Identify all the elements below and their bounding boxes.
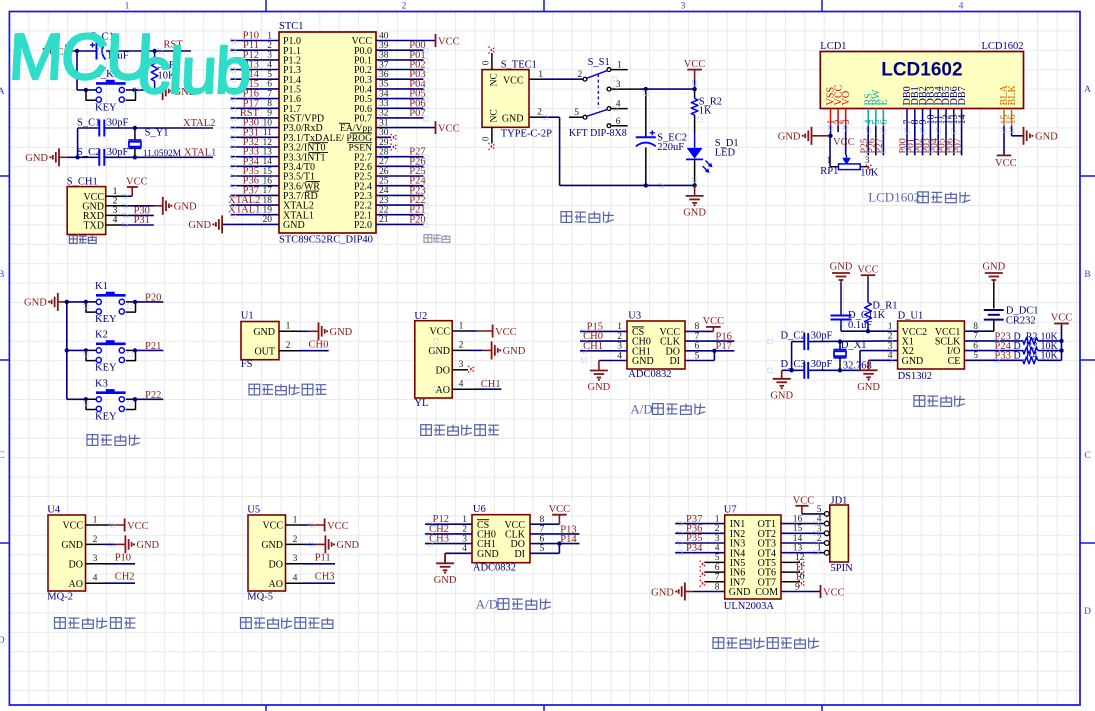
capacitor D_C1 0.1uF — [831, 283, 874, 331]
svg-text:DO: DO — [269, 559, 283, 570]
svg-text:GND: GND — [502, 114, 524, 125]
svg-text:2: 2 — [817, 534, 822, 544]
svg-text:2: 2 — [459, 341, 464, 351]
svg-text:1: 1 — [715, 514, 720, 524]
connector JD1 pin 3 — [824, 531, 829, 536]
wire X2 bottom row — [782, 369, 805, 371]
power port GND (U4) — [116, 535, 159, 553]
no-erc mark mcu pin30 — [391, 134, 398, 141]
junction (85.9,90) — [84, 88, 88, 92]
title 四相五线步进电机 — [713, 638, 819, 649]
capacitor S_EC2 220uF — [636, 89, 687, 185]
pin 1 U1 — [279, 330, 299, 332]
svg-text:16: 16 — [793, 514, 803, 524]
capacitor E_C1 10uF — [90, 32, 129, 62]
net label VCC (lcd pin2) — [833, 126, 855, 148]
svg-text:6: 6 — [616, 117, 621, 127]
driver U7 ULN2003A body — [724, 505, 781, 612]
mcu pin 4 P1.3 — [231, 60, 302, 76]
capacitor S_C1 30pF — [77, 118, 128, 137]
svg-text:GND: GND — [24, 298, 47, 309]
mcu pin 10 P3.0/RxD — [231, 118, 323, 134]
pin 4 U4 — [86, 582, 104, 584]
svg-text:2: 2 — [537, 108, 542, 118]
switch S_S1 KFT DIP-8X8 — [569, 57, 639, 139]
svg-text:FS: FS — [241, 359, 253, 370]
junction (868,rtc pin1) — [866, 329, 870, 333]
driver U7 pin 16 OT1 — [781, 523, 827, 525]
svg-text:GND: GND — [1035, 132, 1058, 143]
resistor D_R1 1K — [865, 278, 898, 332]
svg-text:LCD1602: LCD1602 — [982, 41, 1024, 52]
mcu pin 5 P1.4 — [231, 70, 302, 86]
mcu U STC1 body — [279, 21, 376, 233]
wire S_CH1 pin2 GND — [123, 205, 153, 207]
svg-text:LCD1602: LCD1602 — [868, 190, 920, 205]
adc U3 pin 2 — [580, 340, 627, 342]
no-erc mark U7 pin 12 — [799, 561, 806, 568]
mcu pin 3 P1.2 — [231, 51, 302, 67]
power port VCC (reset) — [42, 45, 76, 58]
svg-text:1: 1 — [113, 187, 118, 197]
pin 4 U2 — [452, 388, 474, 390]
svg-text:3: 3 — [616, 80, 621, 90]
svg-text:GND: GND — [428, 346, 450, 357]
svg-text:10: 10 — [795, 573, 805, 583]
key K2 — [86, 329, 136, 373]
mcu pin 35 P0.4 — [354, 80, 423, 96]
pin 1 S_CH1 — [106, 195, 124, 197]
wire U2 pin2 — [470, 349, 483, 351]
svg-text:D_C2: D_C2 — [781, 330, 806, 341]
zone letters left — [0, 87, 5, 646]
svg-text:VCC: VCC — [833, 137, 855, 148]
svg-text:KEY: KEY — [95, 314, 117, 325]
driver U7 pin 12 stub — [781, 561, 800, 563]
svg-text:VCC: VCC — [495, 327, 517, 338]
label 单片机 — [424, 235, 450, 243]
svg-text:P2.0: P2.0 — [354, 220, 372, 231]
svg-text:KEY: KEY — [95, 102, 117, 113]
mcu pin 11 P3.1/TxD — [231, 128, 323, 144]
adc U3 pin 7 P16 — [685, 340, 734, 342]
key S_K1 — [86, 69, 136, 113]
svg-text:DI: DI — [669, 356, 680, 367]
pin 4 U5 — [286, 582, 304, 584]
connector JD1 pin 5 — [824, 512, 829, 517]
svg-text:3: 3 — [841, 120, 852, 125]
title LCD1602显示模块 — [868, 190, 970, 205]
svg-text:6: 6 — [715, 563, 720, 573]
svg-text:2: 2 — [402, 2, 407, 12]
junction (134.5,90) — [132, 88, 136, 92]
no-erc mark U7 pin 6 — [700, 570, 707, 577]
svg-text:P20: P20 — [145, 292, 161, 303]
wire U4 pin2 — [103, 543, 116, 545]
svg-text:3: 3 — [715, 534, 720, 544]
mcu pin 26 P2.5 — [354, 167, 423, 183]
connector JD1 pin 1 — [824, 550, 829, 555]
svg-text:VCC: VCC — [503, 76, 524, 87]
svg-text:VCC: VCC — [823, 587, 845, 598]
svg-text:A/D: A/D — [630, 402, 652, 417]
wire JD1 pin5 — [802, 513, 824, 515]
svg-text:GND: GND — [283, 220, 305, 231]
svg-text:3: 3 — [459, 360, 464, 370]
wire key bus vertical — [66, 302, 68, 399]
power port GND (U3) — [588, 361, 611, 394]
title 时钟模块 — [914, 396, 965, 407]
wire U1 pin1 gnd — [299, 330, 309, 332]
lcd pin 16 BLK — [1007, 84, 1018, 126]
svg-text:4: 4 — [113, 216, 118, 226]
svg-text:P22: P22 — [145, 390, 161, 401]
power port VCC (D_R1) — [857, 264, 879, 277]
svg-text:8: 8 — [540, 515, 545, 525]
svg-text:0.1uF: 0.1uF — [848, 320, 872, 331]
mcu pin 2 P1.1 — [231, 41, 302, 57]
adc U3 pin 8 vcc — [685, 330, 713, 332]
wire rtc pin4 gnd — [869, 359, 898, 361]
wire bus to K1 — [67, 301, 86, 303]
lcd pin 6 E — [879, 99, 890, 126]
power port GND (rtc pin4) — [857, 360, 880, 393]
title 风速检测模块 — [249, 384, 326, 395]
power port GND (U2) — [483, 341, 526, 359]
connector S_TEC1 TYPE-C-2P — [482, 60, 552, 140]
svg-text:13: 13 — [793, 544, 803, 554]
junction (1061.5,I/O) — [1059, 348, 1063, 352]
svg-text:D: D — [1084, 607, 1091, 617]
svg-text:B: B — [1084, 270, 1090, 280]
driver U7 pin 4 — [675, 552, 725, 554]
pin 4 S_CH1 — [106, 224, 124, 226]
svg-text:VCC: VCC — [429, 327, 450, 338]
svg-text:30pF: 30pF — [811, 330, 833, 341]
svg-text:DO: DO — [69, 559, 83, 570]
svg-text:2: 2 — [286, 341, 291, 351]
pin 1 S_TEC1 — [529, 78, 540, 80]
driver U7 pin 6 stub — [705, 571, 725, 573]
junction (830.5,135.8) — [828, 134, 832, 138]
power port GND (U1) — [309, 322, 353, 340]
svg-text:P07: P07 — [952, 138, 963, 153]
wire D_C2 left leg — [792, 341, 805, 343]
svg-text:GND: GND — [683, 207, 706, 218]
wire key left stub — [77, 89, 86, 91]
pin 2 U2 — [452, 349, 470, 351]
rtc D_U1 body — [898, 311, 965, 383]
mcu pin 21 P2.0 — [354, 215, 423, 231]
svg-text:P11: P11 — [315, 552, 331, 563]
svg-text:VO: VO — [841, 91, 852, 106]
wire crystal left leg — [77, 128, 79, 157]
svg-text:1: 1 — [293, 515, 298, 525]
adc U3 pin 3 — [580, 350, 627, 352]
wire S_CH1 pin1 VCC — [123, 195, 132, 197]
pin 3 S_CH1 — [106, 214, 124, 216]
driver U7 pin 2 — [675, 532, 725, 534]
resistor D_R2 10K — [1014, 331, 1059, 344]
power port GND (D_C1) — [830, 262, 853, 284]
wire key right stub — [136, 89, 145, 91]
svg-text:14: 14 — [957, 115, 968, 125]
driver U7 pin 1 — [675, 523, 725, 525]
mcu pin 37 P0.2 — [354, 60, 423, 76]
svg-text:U5: U5 — [247, 504, 260, 515]
power port GND (mcu pin20) — [188, 215, 222, 233]
svg-text:16: 16 — [1007, 115, 1018, 125]
svg-text:GND: GND — [25, 153, 48, 164]
wire rtc pin1 row — [841, 330, 898, 332]
pin 2 U5 — [286, 543, 304, 545]
mcu pin 23 P2.2 — [354, 196, 423, 212]
pin 2 S_TEC1 — [529, 116, 540, 118]
svg-text:GND: GND — [729, 587, 751, 598]
svg-text:5: 5 — [574, 108, 579, 118]
junction (154.6,51) — [152, 49, 156, 53]
svg-text:3: 3 — [113, 206, 118, 216]
mcu pin 13 P3.3/INT1 — [231, 148, 326, 164]
driver U7 pin 13 OT4 — [781, 552, 827, 554]
svg-text:DO: DO — [436, 365, 450, 376]
wire XTAL2 row — [78, 127, 100, 129]
mcu pin 25 P2.4 — [354, 177, 423, 193]
svg-text:GND: GND — [982, 262, 1005, 273]
svg-text:220uF: 220uF — [657, 142, 684, 153]
adc U6 pin 2 — [425, 533, 472, 535]
svg-text:K1: K1 — [95, 281, 108, 292]
power port GND (lcd right) — [1024, 127, 1059, 145]
wire lcd pin15 bla-vcc — [1003, 126, 1005, 155]
svg-text:U3: U3 — [628, 311, 641, 322]
driver U7 pin 7 stub — [705, 581, 725, 583]
svg-text:VCC: VCC — [127, 521, 149, 532]
junction (840,X1 row) — [838, 339, 842, 343]
svg-text:3: 3 — [865, 156, 870, 166]
rtc pin numbers right — [973, 322, 978, 361]
svg-text:D: D — [0, 636, 5, 646]
potentiometer RP1 10K — [820, 156, 878, 178]
svg-text:5: 5 — [715, 553, 720, 563]
svg-text:CH1: CH1 — [481, 379, 501, 390]
svg-text:D_R4: D_R4 — [1014, 351, 1038, 362]
wire VCC-RST row — [76, 50, 96, 52]
junction (66.8,301.9) — [65, 300, 69, 304]
lcd pin 12 DB5 — [941, 86, 952, 126]
wire lcd pin16 blk-gnd — [1011, 126, 1013, 136]
svg-text:2: 2 — [462, 525, 467, 535]
lcd pin 2 VCC — [833, 84, 844, 126]
svg-text:1K: 1K — [699, 106, 712, 117]
adc U3 body — [627, 311, 685, 381]
svg-text:DB7: DB7 — [957, 86, 968, 105]
svg-text:3: 3 — [617, 342, 622, 352]
wire K1 to label — [136, 301, 164, 303]
wire S_R1 to gnd elbow — [154, 81, 156, 91]
wire pullup bus vertical — [1061, 325, 1063, 360]
svg-text:3: 3 — [462, 534, 467, 544]
power port VCC (U2) — [477, 325, 517, 338]
junction (1061.5,SCLK) — [1059, 339, 1063, 343]
svg-text:12: 12 — [795, 553, 805, 563]
lcd pin 3 VO — [841, 91, 852, 126]
wire rtc pin2 X1 — [808, 340, 897, 343]
svg-text:3: 3 — [681, 2, 686, 12]
power port VCC (U5) — [309, 519, 349, 532]
svg-text:XTAL1: XTAL1 — [184, 147, 216, 158]
capacitor D_C3 30pF — [781, 359, 833, 379]
svg-text:4: 4 — [93, 574, 98, 584]
mcu pin 24 P2.3 — [354, 186, 423, 202]
junction (134.9,128) — [133, 126, 137, 130]
svg-text:GND: GND — [174, 202, 197, 213]
svg-text:VCC: VCC — [857, 264, 879, 275]
svg-text:11: 11 — [795, 563, 804, 573]
power port VCC (power circuit) — [684, 59, 706, 80]
svg-text:OUT: OUT — [254, 346, 275, 357]
no-erc mark U2 pin3 — [468, 366, 475, 373]
junction (645.8,185.4) — [644, 183, 648, 187]
wire left leg to key — [76, 51, 78, 90]
svg-text:P21: P21 — [145, 341, 161, 352]
no-erc mark U7 pin 5 — [700, 561, 707, 568]
wire bus to K3 — [67, 398, 86, 400]
title 烟雾检测模块 — [55, 618, 136, 629]
svg-text:D_X1: D_X1 — [841, 340, 867, 351]
no-erc mark U7 pin 11 — [799, 570, 806, 577]
svg-text:ADC0832: ADC0832 — [473, 562, 516, 573]
svg-text:3: 3 — [93, 554, 98, 564]
title 雨水检测模块 — [421, 425, 499, 436]
power port GND (U5) — [316, 535, 359, 553]
svg-text:K3: K3 — [95, 378, 108, 389]
svg-text:U4: U4 — [47, 504, 61, 515]
power port GND (D_C3) — [770, 370, 793, 401]
svg-text:VCC: VCC — [62, 521, 83, 532]
svg-text:C: C — [1084, 451, 1090, 461]
wire rtc pin5 CE row — [964, 359, 1022, 361]
driver U7 pin 11 stub — [781, 571, 800, 573]
title A/D转换电路 (U3) — [630, 402, 705, 417]
lcd pin 4 RS — [863, 93, 874, 126]
svg-text:8: 8 — [715, 582, 720, 592]
svg-text:VCC: VCC — [549, 504, 571, 515]
wire U2 pin4 CH1 — [474, 388, 502, 390]
pin stub S_TEC1 top — [491, 53, 493, 70]
power port GND (D_DC1) — [982, 262, 1005, 284]
lcd pin 14 DB7 — [957, 86, 968, 126]
svg-text:RP1: RP1 — [820, 166, 838, 177]
wire lcd pin3 vo to pot wiper — [845, 126, 847, 155]
power port GND (reset) — [155, 82, 197, 100]
power port VCC (U7 COM) — [821, 585, 845, 598]
svg-text:XTAL2: XTAL2 — [183, 118, 215, 129]
svg-text:4: 4 — [616, 100, 621, 110]
svg-text:P10: P10 — [115, 552, 131, 563]
lcd LCD1 body — [820, 41, 1023, 109]
svg-text:YL: YL — [414, 398, 428, 409]
svg-text:D_U1: D_U1 — [898, 311, 924, 322]
no-erc mark S_TEC1 bottom — [489, 143, 496, 150]
mcu pin 30 ALE/ PROG — [323, 128, 391, 144]
svg-text:5: 5 — [817, 505, 822, 515]
wire TEC1 pin1 to switch — [540, 78, 583, 80]
driver U7 pin 9 COM — [781, 591, 821, 593]
wire lcd pins4-14 with rotated labels — [859, 126, 963, 155]
svg-text:VCC: VCC — [703, 316, 725, 327]
mcu pin 33 P0.6 — [354, 99, 423, 115]
svg-text:CH3: CH3 — [315, 572, 335, 583]
svg-text:S_C1: S_C1 — [77, 118, 100, 129]
svg-text:4: 4 — [459, 380, 464, 390]
mcu pin 34 P0.5 — [354, 89, 423, 105]
junction (559.4,U6 DO row) — [557, 541, 561, 545]
power port VCC (JD1 pin5) — [793, 496, 815, 514]
svg-text:4: 4 — [617, 351, 622, 361]
mcu pin 1 P1.0 — [231, 31, 302, 47]
pin 1 U5 — [286, 524, 304, 526]
svg-text:15: 15 — [793, 524, 803, 534]
mcu pin 32 P0.7 — [354, 109, 423, 125]
power port GND (U7) — [651, 583, 693, 601]
driver U7 pin 8 gnd — [693, 591, 725, 593]
svg-text:LCD1602: LCD1602 — [881, 60, 962, 81]
MCUclub logo — [6, 20, 252, 107]
wire lcd pin1 vss-gnd — [830, 126, 832, 136]
svg-text:P14: P14 — [560, 534, 577, 545]
svg-text:KFT DIP-8X8: KFT DIP-8X8 — [569, 128, 627, 139]
label 下载口 — [69, 236, 96, 244]
junction right K3 — [133, 397, 137, 401]
title 电源电路 — [561, 212, 614, 223]
mcu pin 28 P2.7 — [354, 148, 423, 164]
wire rtc pin7 SCLK row — [964, 340, 1022, 342]
svg-text:1: 1 — [459, 321, 464, 331]
junction (840,370.3) — [838, 368, 842, 372]
junction (77,51) — [75, 49, 79, 53]
lcd pin 15 BLA — [999, 84, 1010, 126]
mcu pin 27 P2.6 — [354, 157, 423, 173]
svg-text:MQ-2: MQ-2 — [47, 592, 73, 603]
power port VCC (S_CH1) — [126, 176, 148, 196]
svg-text:VCC: VCC — [684, 59, 706, 70]
wire rtc pin3 X2 — [860, 350, 898, 352]
mcu pin 40 VCC — [351, 31, 435, 47]
svg-text:KEY: KEY — [95, 412, 117, 423]
selection marks — [84, 39, 1014, 555]
adc U6 pin 3 — [425, 543, 472, 545]
adc U3 pin 6 P17 — [685, 350, 734, 352]
svg-text:VCC: VCC — [995, 158, 1017, 169]
wire TEC1 pin2 gnd path — [540, 116, 560, 118]
lcd pin 7 DB0 — [902, 86, 913, 126]
pin 3 U5 — [286, 563, 304, 565]
svg-text:CE: CE — [948, 356, 961, 367]
sensor U2 YL body — [414, 311, 452, 409]
power port GND (power circuit) — [683, 185, 706, 218]
svg-text:1K: 1K — [872, 310, 885, 321]
wire U4 pin1 — [103, 524, 109, 526]
adc U3 pin 5 DI — [685, 360, 714, 362]
junction (714.4,U3 DO row) — [712, 349, 716, 353]
svg-text:VCC: VCC — [126, 176, 148, 187]
junction right K1 — [133, 300, 137, 304]
svg-text:CR232: CR232 — [1006, 315, 1036, 326]
pin stub S_TEC1 bottom — [491, 127, 493, 143]
junction (77.6,157.3) — [75, 155, 79, 159]
lcd pin 8 DB1 — [910, 86, 921, 126]
